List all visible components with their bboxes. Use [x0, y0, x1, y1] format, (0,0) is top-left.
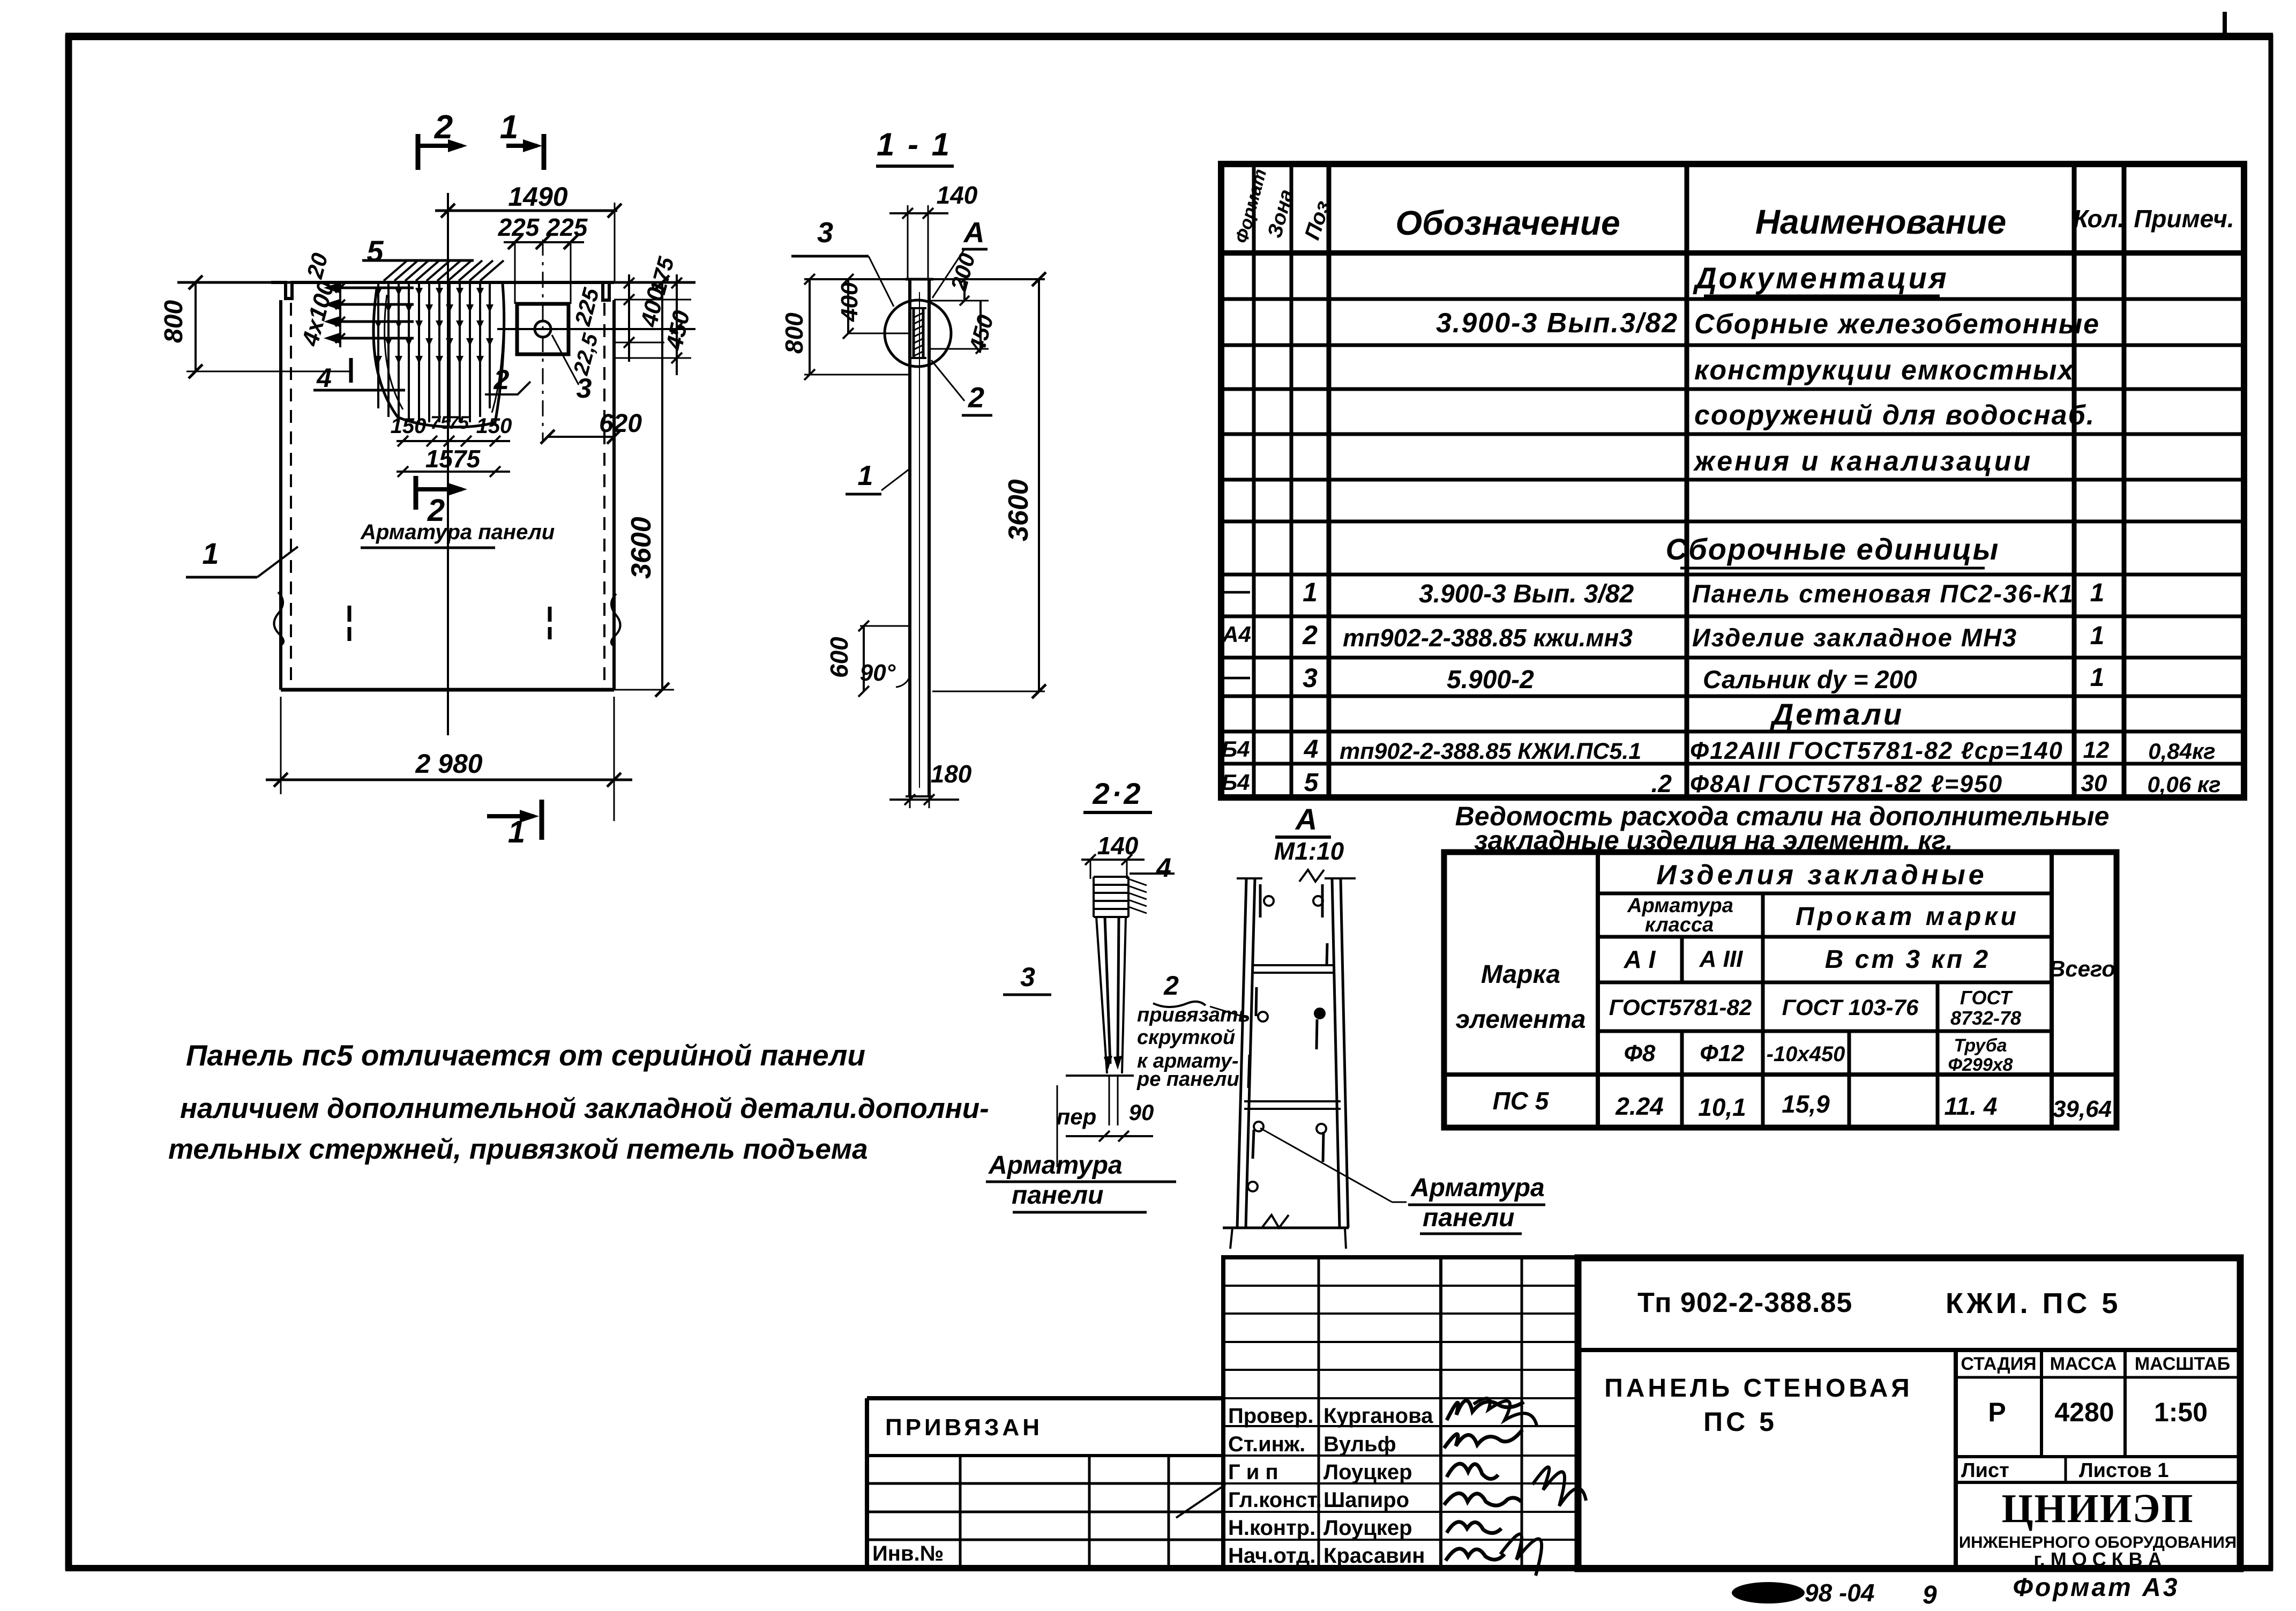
- svg-text:Красавин: Красавин: [1323, 1544, 1425, 1568]
- leader armatura paneli detail: [1260, 1128, 1392, 1202]
- svg-text:5: 5: [1304, 769, 1319, 797]
- svg-text:г. М О С К В А: г. М О С К В А: [2033, 1548, 2162, 1570]
- svg-text:ЦНИИЭП: ЦНИИЭП: [2001, 1486, 2194, 1531]
- rebar fan envelope curve: [373, 284, 504, 427]
- svg-text:Труба: Труба: [1954, 1035, 2007, 1056]
- dimension 2980: [266, 779, 632, 781]
- svg-text:2: 2: [493, 364, 510, 396]
- dimension 450 section right: [979, 301, 982, 349]
- section line 2-2 vertical centre: [447, 193, 449, 735]
- privyazan lower grid: [867, 1482, 1223, 1485]
- svg-text:МАССА: МАССА: [2050, 1354, 2117, 1374]
- svg-text:1: 1: [2090, 622, 2105, 650]
- section marker 1 top: [542, 134, 547, 170]
- section 2-2 hatch flag: [1128, 879, 1147, 885]
- rebar group 5 hatch band: [384, 260, 407, 281]
- svg-text:А: А: [963, 217, 985, 249]
- svg-text:Сборные железобетонные: Сборные железобетонные: [1694, 309, 2100, 340]
- svg-text:90: 90: [1129, 1100, 1154, 1125]
- svg-text:3: 3: [817, 217, 833, 249]
- svg-text:12: 12: [2083, 737, 2110, 763]
- specification table row lines: [1221, 297, 2244, 301]
- svg-text:Вульф: Вульф: [1323, 1433, 1396, 1456]
- stadia massa masshtab header: [1956, 1376, 2240, 1379]
- svg-text:3: 3: [1020, 962, 1035, 992]
- svg-text:—: —: [1224, 577, 1250, 605]
- svg-text:Тп 902-2-388.85: Тп 902-2-388.85: [1637, 1287, 1852, 1318]
- svg-text:2: 2: [968, 382, 984, 414]
- svg-text:3: 3: [1303, 663, 1318, 693]
- panel plan view outline: [271, 282, 614, 300]
- svg-text:тп902-2-388.85 КЖИ.ПС5.1: тп902-2-388.85 КЖИ.ПС5.1: [1340, 739, 1641, 764]
- svg-text:Г и п: Г и п: [1228, 1460, 1278, 1484]
- svg-text:ПАНЕЛЬ СТЕНОВАЯ: ПАНЕЛЬ СТЕНОВАЯ: [1604, 1374, 1913, 1403]
- svg-text:Б4: Б4: [1221, 770, 1250, 795]
- svg-text:9: 9: [1923, 1581, 1937, 1609]
- svg-text:Ф299х8: Ф299х8: [1948, 1055, 2013, 1075]
- svg-text:225: 225: [498, 213, 540, 241]
- svg-text:150: 150: [476, 414, 512, 438]
- svg-text:Лист: Лист: [1961, 1459, 2009, 1482]
- edge break mark left: [274, 592, 283, 645]
- specification table frame: [1221, 164, 2244, 797]
- svg-text:Всего: Всего: [2049, 956, 2115, 981]
- svg-text:ре панели: ре панели: [1136, 1068, 1239, 1091]
- dimension 620: [548, 436, 614, 438]
- svg-text:Арматура: Арматура: [1410, 1174, 1545, 1202]
- dimension 800 left: [195, 282, 197, 371]
- list listov row: [1956, 1455, 2240, 1458]
- section 1-1 top extension line: [804, 278, 1045, 280]
- svg-text:Шапиро: Шапиро: [1323, 1488, 1409, 1512]
- svg-text:привязать: привязать: [1137, 1004, 1250, 1026]
- svg-text:Наименование: Наименование: [1755, 203, 2006, 241]
- svg-text:Кол.: Кол.: [2073, 205, 2125, 233]
- svg-text:3.900-3 Вып. 3/82: 3.900-3 Вып. 3/82: [1419, 580, 1634, 608]
- section mark 4 left: [313, 389, 405, 392]
- detail A left bar: [1237, 878, 1246, 1228]
- svg-text:1: 1: [858, 460, 873, 491]
- svg-text:Р: Р: [1988, 1397, 2006, 1427]
- svg-text:ПРИВЯЗАН: ПРИВЯЗАН: [885, 1414, 1043, 1441]
- section 1-1 wall faces: [908, 279, 911, 796]
- vedomost table inner lines: [1596, 852, 1600, 1128]
- svg-text:1: 1: [2090, 579, 2105, 607]
- dimension 180 bottom: [889, 799, 959, 801]
- svg-text:2.24: 2.24: [1615, 1092, 1664, 1120]
- svg-text:тп902-2-388.85 кжи.мн3: тп902-2-388.85 кжи.мн3: [1343, 624, 1633, 652]
- svg-text:1: 1: [202, 536, 219, 570]
- svg-text:наличием дополнительной закл: наличием дополнительной закладной детали…: [180, 1093, 989, 1124]
- svg-text:3600: 3600: [1003, 479, 1034, 541]
- svg-text:140: 140: [937, 181, 978, 209]
- inner joint ticks left: [348, 606, 351, 622]
- svg-text:Ф8: Ф8: [1624, 1040, 1656, 1066]
- svg-text:30: 30: [2081, 770, 2107, 796]
- specification table header line: [1221, 250, 2244, 256]
- svg-text:2·2: 2·2: [1093, 777, 1143, 810]
- svg-text:2 980: 2 980: [415, 749, 482, 779]
- title block doc number cell: [1578, 1348, 2240, 1352]
- svg-text:класса: класса: [1645, 914, 1714, 936]
- svg-text:пер: пер: [1057, 1104, 1097, 1129]
- svg-text:2: 2: [434, 109, 453, 146]
- svg-text:3600: 3600: [626, 517, 657, 579]
- svg-text:1 - 1: 1 - 1: [877, 126, 952, 162]
- svg-text:Листов 1: Листов 1: [2079, 1459, 2169, 1482]
- dimension 225 225: [504, 241, 584, 243]
- svg-text:Документация: Документация: [1693, 261, 1949, 295]
- signature scribbles: [1447, 1400, 1524, 1420]
- dimension 1490: [435, 210, 617, 212]
- svg-text:Панель стеновая ПС2-36-К1: Панель стеновая ПС2-36-К1: [1692, 579, 2074, 608]
- svg-text:Б4: Б4: [1221, 736, 1250, 762]
- svg-text:-10х450: -10х450: [1767, 1042, 1845, 1066]
- detail A top break: [1299, 870, 1324, 882]
- dimension 3600 section: [1038, 279, 1040, 691]
- svg-text:Панель пс5 отличается от с: Панель пс5 отличается от серийной панели: [186, 1039, 865, 1072]
- svg-text:1: 1: [1303, 577, 1318, 607]
- svg-text:90°: 90°: [860, 660, 896, 686]
- svg-text:1: 1: [508, 815, 525, 849]
- svg-text:Детали: Детали: [1770, 697, 1904, 731]
- svg-text:11. 4: 11. 4: [1945, 1092, 1998, 1120]
- svg-text:СТАДИЯ: СТАДИЯ: [1961, 1354, 2036, 1374]
- svg-text:8732-78: 8732-78: [1950, 1007, 2021, 1029]
- diagonal mark before glkonst: [1176, 1485, 1225, 1518]
- section 2-2 bottom line: [1066, 1075, 1134, 1077]
- svg-text:1:50: 1:50: [2154, 1397, 2208, 1427]
- section marker 2 bottom of fan: [414, 476, 418, 510]
- svg-text:4280: 4280: [2054, 1397, 2114, 1427]
- svg-text:225: 225: [546, 213, 588, 241]
- svg-text:150: 150: [391, 414, 427, 438]
- svg-text:3.900-3 Вып.3/82: 3.900-3 Вып.3/82: [1436, 308, 1678, 339]
- svg-text:15,9: 15,9: [1782, 1090, 1830, 1118]
- svg-text:4: 4: [1156, 853, 1171, 883]
- panel hidden edge dashed left: [290, 303, 292, 686]
- section 2-2 tapered sides: [1096, 917, 1107, 1073]
- svg-text:панели: панели: [1012, 1181, 1103, 1210]
- svg-text:5: 5: [367, 234, 384, 268]
- additional rebar fan verticals: [377, 282, 379, 408]
- dimension 3600 plan right: [661, 282, 663, 690]
- svg-text:А4: А4: [1222, 622, 1251, 647]
- svg-text:600: 600: [825, 637, 853, 678]
- svg-text:2: 2: [1163, 971, 1179, 1001]
- svg-text:Ст.инж.: Ст.инж.: [1228, 1433, 1305, 1456]
- dimension 1575: [397, 471, 510, 473]
- inner joint ticks right: [548, 607, 552, 622]
- title block frame: [1578, 1258, 2240, 1569]
- panel hidden edge dashed right: [603, 303, 605, 686]
- svg-text:А III: А III: [1699, 946, 1743, 972]
- rebar fan dot rows: [375, 288, 382, 296]
- detail A rungs: [1254, 964, 1333, 966]
- svg-text:Сальник dу = 200: Сальник dу = 200: [1703, 665, 1917, 693]
- embed plate MH3: [517, 304, 569, 354]
- svg-text:Лоуцкер: Лоуцкер: [1323, 1460, 1412, 1484]
- dimension 150 75 75 150 under fan: [397, 440, 510, 442]
- edge break mark right: [611, 594, 620, 645]
- svg-text:1490: 1490: [508, 182, 567, 212]
- svg-text:Лоуцкер: Лоуцкер: [1323, 1516, 1412, 1540]
- svg-text:0,06 кг: 0,06 кг: [2147, 772, 2220, 797]
- section marker 1 bottom: [540, 800, 544, 840]
- svg-text:Арматура: Арматура: [988, 1151, 1123, 1180]
- detail A bar stubs and dots: [1259, 884, 1262, 918]
- dimension 400 section: [847, 279, 849, 333]
- svg-text:Нач.отд.: Нач.отд.: [1228, 1544, 1315, 1568]
- svg-text:800: 800: [780, 312, 808, 354]
- svg-text:ГОСТ5781-82: ГОСТ5781-82: [1609, 995, 1752, 1020]
- svg-text:элемента: элемента: [1456, 1005, 1586, 1034]
- svg-text:ПС 5: ПС 5: [1703, 1407, 1777, 1437]
- svg-text:ГОСТ: ГОСТ: [1960, 987, 2013, 1009]
- dimension 200 section right: [963, 279, 966, 301]
- svg-text:Ф12: Ф12: [1700, 1040, 1745, 1066]
- svg-text:В ст 3 кп 2: В ст 3 кп 2: [1825, 945, 1990, 974]
- title block name cell: [1954, 1350, 1958, 1569]
- svg-text:1575: 1575: [425, 445, 481, 473]
- svg-text:0,84кг: 0,84кг: [2148, 739, 2215, 764]
- svg-text:75: 75: [448, 413, 469, 433]
- detail circle A: [885, 300, 951, 367]
- svg-text:—: —: [1224, 662, 1250, 691]
- svg-text:Примеч.: Примеч.: [2134, 205, 2234, 233]
- svg-text:Провер.: Провер.: [1228, 1404, 1313, 1428]
- svg-text:Обозначение: Обозначение: [1395, 204, 1620, 242]
- embed plate anchor circle: [535, 321, 551, 337]
- svg-text:Курганова: Курганова: [1323, 1404, 1433, 1428]
- svg-text:КЖИ. ПС 5: КЖИ. ПС 5: [1946, 1287, 2121, 1319]
- svg-text:А: А: [1295, 802, 1317, 836]
- svg-text:сооружений для водоснаб.: сооружений для водоснаб.: [1694, 400, 2095, 431]
- svg-text:1: 1: [500, 109, 518, 146]
- svg-text:4: 4: [1304, 735, 1319, 764]
- svg-text:Инв.№: Инв.№: [872, 1542, 944, 1565]
- svg-text:Формат А3: Формат А3: [2013, 1573, 2179, 1602]
- svg-text:Ф12АIII ГОСТ5781-82 ℓср=140: Ф12АIII ГОСТ5781-82 ℓср=140: [1690, 737, 2063, 764]
- svg-text:800: 800: [160, 300, 188, 343]
- svg-text:тельных стержней, привязкой п: тельных стержней, привязкой петель подъе…: [168, 1133, 868, 1165]
- specification table column lines: [1252, 164, 1256, 797]
- svg-text:Арматура панели: Арматура панели: [360, 520, 555, 544]
- svg-text:конструкции емкостных: конструкции емкостных: [1694, 355, 2074, 386]
- svg-text:1: 1: [2090, 663, 2105, 692]
- vedomost table frame: [1444, 852, 2116, 1128]
- svg-text:Ф8АI ГОСТ5781-82 ℓ=950: Ф8АI ГОСТ5781-82 ℓ=950: [1690, 770, 2003, 797]
- svg-text:Н.контр.: Н.контр.: [1228, 1516, 1315, 1540]
- section marker 2 top: [416, 134, 421, 170]
- svg-text:3: 3: [577, 373, 592, 404]
- svg-text:180: 180: [931, 760, 972, 788]
- svg-text:жения и канализации: жения и канализации: [1693, 446, 2032, 477]
- svg-text:5.900-2: 5.900-2: [1447, 666, 1534, 694]
- embed plate centre line vertical dashed: [542, 240, 544, 441]
- embed plate centre line horizontal: [497, 328, 695, 330]
- spacing arrows 4x100: [339, 284, 341, 347]
- dimension 140 top: [889, 212, 948, 214]
- svg-text:620: 620: [599, 409, 642, 438]
- svg-text:панели: панели: [1423, 1204, 1514, 1232]
- detail A right bar: [1332, 878, 1340, 1228]
- revision grid: [1223, 1257, 1578, 1568]
- privyazan box: [867, 1396, 1223, 1400]
- embed in section: [913, 308, 915, 358]
- svg-text:Гл.конст.: Гл.конст.: [1228, 1488, 1322, 1512]
- right dim chain 175 400 450 225: [628, 274, 630, 362]
- svg-text:10,1: 10,1: [1698, 1093, 1746, 1121]
- svg-text:.2: .2: [1651, 770, 1672, 797]
- svg-text:А I: А I: [1624, 945, 1656, 973]
- detail A bottom line and break: [1223, 1227, 1349, 1229]
- svg-text:400: 400: [836, 282, 863, 322]
- svg-text:ГОСТ 103-76: ГОСТ 103-76: [1782, 995, 1919, 1020]
- svg-text:МАСШТАБ: МАСШТАБ: [2135, 1354, 2230, 1374]
- svg-text:39,64: 39,64: [2053, 1096, 2112, 1122]
- svg-text:4: 4: [316, 363, 332, 393]
- svg-text:скруткой: скруткой: [1137, 1026, 1235, 1049]
- svg-text:2: 2: [1302, 620, 1318, 650]
- svg-text:Изделия закладные: Изделия закладные: [1656, 860, 1987, 891]
- inventory smudge: [1732, 1582, 1805, 1603]
- drawing frame border: [65, 34, 72, 1570]
- svg-text:М1:10: М1:10: [1274, 837, 1344, 865]
- svg-text:Прокат марки: Прокат марки: [1796, 903, 2020, 931]
- svg-text:Сборочные единицы: Сборочные единицы: [1666, 532, 2000, 566]
- dimension 600 section bottom: [863, 626, 865, 691]
- section 2-2 embed block: [1094, 876, 1128, 878]
- dimension 800 section: [809, 279, 811, 375]
- svg-text:ПС 5: ПС 5: [1493, 1087, 1550, 1115]
- section 2-2 inner bars: [1105, 917, 1110, 1064]
- svg-text:98 -04: 98 -04: [1805, 1579, 1874, 1607]
- svg-text:Изделие закладное МН3: Изделие закладное МН3: [1692, 623, 2017, 652]
- svg-text:Марка: Марка: [1481, 960, 1560, 989]
